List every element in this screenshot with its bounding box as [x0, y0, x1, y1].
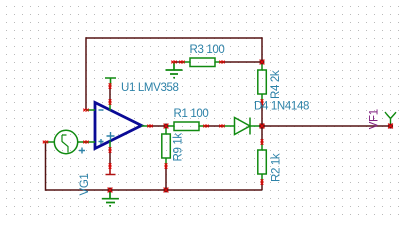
svg-text:VF1: VF1	[369, 109, 381, 129]
terminal VF1 dot	[388, 123, 393, 128]
wire R2 bottom to rail	[261, 182, 263, 190]
op-amp supply pin leads	[109, 102, 111, 150]
ground at bottom rail	[102, 190, 119, 206]
svg-text:R3 100: R3 100	[190, 44, 225, 56]
op-amp supply plus marker	[107, 132, 115, 140]
wire R9 bottom to rail	[165, 166, 167, 190]
svg-text:R1 100: R1 100	[174, 108, 209, 120]
label U1 LMV358	[121, 82, 179, 94]
wire right bus top segment	[261, 37, 263, 62]
wire feedback top	[86, 37, 262, 39]
pin connection cross marks	[43, 61, 264, 185]
op-amp U1	[95, 103, 142, 149]
wire R4 bottom to node C	[261, 102, 263, 126]
wire R3 right pin to node A	[222, 61, 262, 63]
resistor R4	[258, 62, 267, 102]
terminal VF1 antenna	[385, 112, 396, 124]
junction rail-R9	[164, 188, 169, 193]
VCC jumper	[105, 78, 116, 86]
wire R1 to diode anode	[206, 125, 222, 127]
wire VCC jumper to op-amp V- pin	[109, 86, 111, 102]
ground near R3	[166, 62, 183, 78]
svg-text:U1 LMV358: U1 LMV358	[121, 82, 179, 94]
junction node C	[259, 123, 265, 129]
label VG1	[79, 174, 91, 196]
label VF1	[369, 109, 381, 129]
svg-text:R9 1k: R9 1k	[172, 133, 184, 162]
op-amp plus input marker	[99, 139, 104, 144]
label R9 1k	[172, 133, 184, 162]
label R4 2k	[270, 70, 282, 99]
wire op-amp V+ pin to negative supply jumper	[109, 150, 111, 166]
label R1 100	[174, 108, 209, 120]
resistor R1	[166, 122, 206, 131]
resistor R3	[182, 58, 222, 67]
voltage generator VG1	[46, 130, 87, 153]
junction node B	[164, 124, 169, 129]
label D4 1N4148	[254, 101, 309, 113]
negative supply jumper	[106, 166, 116, 175]
wire bottom rail	[46, 189, 263, 191]
wire ground to R3 left pin	[174, 61, 182, 63]
wire node C to terminal VF1	[262, 125, 390, 127]
wire VG1 left terminal down to rail	[45, 142, 47, 191]
label R2 1k	[271, 153, 283, 182]
wire left frame to inverting input	[85, 37, 87, 110]
wire op-amp output to node B	[150, 125, 166, 127]
resistor R9	[162, 126, 171, 166]
svg-text:R4 2k: R4 2k	[270, 70, 282, 99]
diode D4	[222, 118, 262, 135]
label R3 100	[190, 44, 225, 56]
op-amp output pin lead	[142, 125, 151, 127]
op-amp minus input marker	[99, 109, 104, 111]
junction cross marks	[108, 60, 393, 193]
svg-text:VG1: VG1	[79, 174, 91, 196]
VG1 plus marker	[79, 148, 85, 154]
wire node C to R2 top	[261, 126, 263, 142]
resistor R2	[258, 142, 267, 182]
junction rail-ground	[108, 188, 113, 193]
junction node A	[260, 60, 265, 65]
op-amp input pin leads	[86, 110, 95, 142]
svg-text:R2 1k: R2 1k	[271, 153, 283, 182]
svg-text:D4 1N4148: D4 1N4148	[254, 101, 309, 113]
